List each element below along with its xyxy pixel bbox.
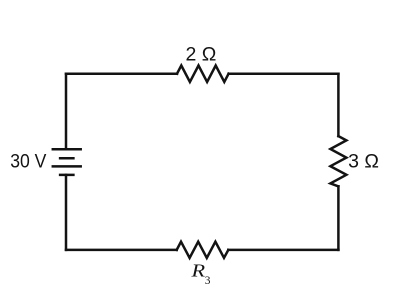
wire: bottom-left segment: [66, 249, 177, 252]
battery V1: long plate 2: [53, 165, 81, 168]
wire: bottom-right segment: [228, 249, 338, 252]
resistor R1 (2 ohm, top): [177, 66, 229, 82]
battery V1: short plate 2: [60, 174, 73, 177]
wire: left upper segment (top corner to battery): [65, 74, 68, 150]
wire: left lower segment (battery to bottom corner): [65, 175, 68, 250]
battery V1 (30 V): long plate 1: [53, 148, 81, 151]
svg-text:R: R: [190, 261, 205, 281]
wire: right lower segment: [337, 186, 340, 250]
wire: top-right segment: [229, 72, 339, 75]
resistor R2 (3 ohm, right): [330, 136, 346, 186]
svg-text:3 Ω: 3 Ω: [348, 150, 379, 172]
svg-text:3: 3: [205, 275, 211, 287]
wire: right upper segment: [337, 74, 340, 136]
battery V1: short plate 1: [60, 157, 73, 160]
svg-text:30 V: 30 V: [10, 150, 46, 172]
svg-text:2 Ω: 2 Ω: [186, 44, 217, 66]
label: R3 (bottom resistor name): [190, 261, 210, 287]
wire: top-left segment: [66, 72, 177, 75]
resistor R3 (bottom): [177, 242, 229, 258]
